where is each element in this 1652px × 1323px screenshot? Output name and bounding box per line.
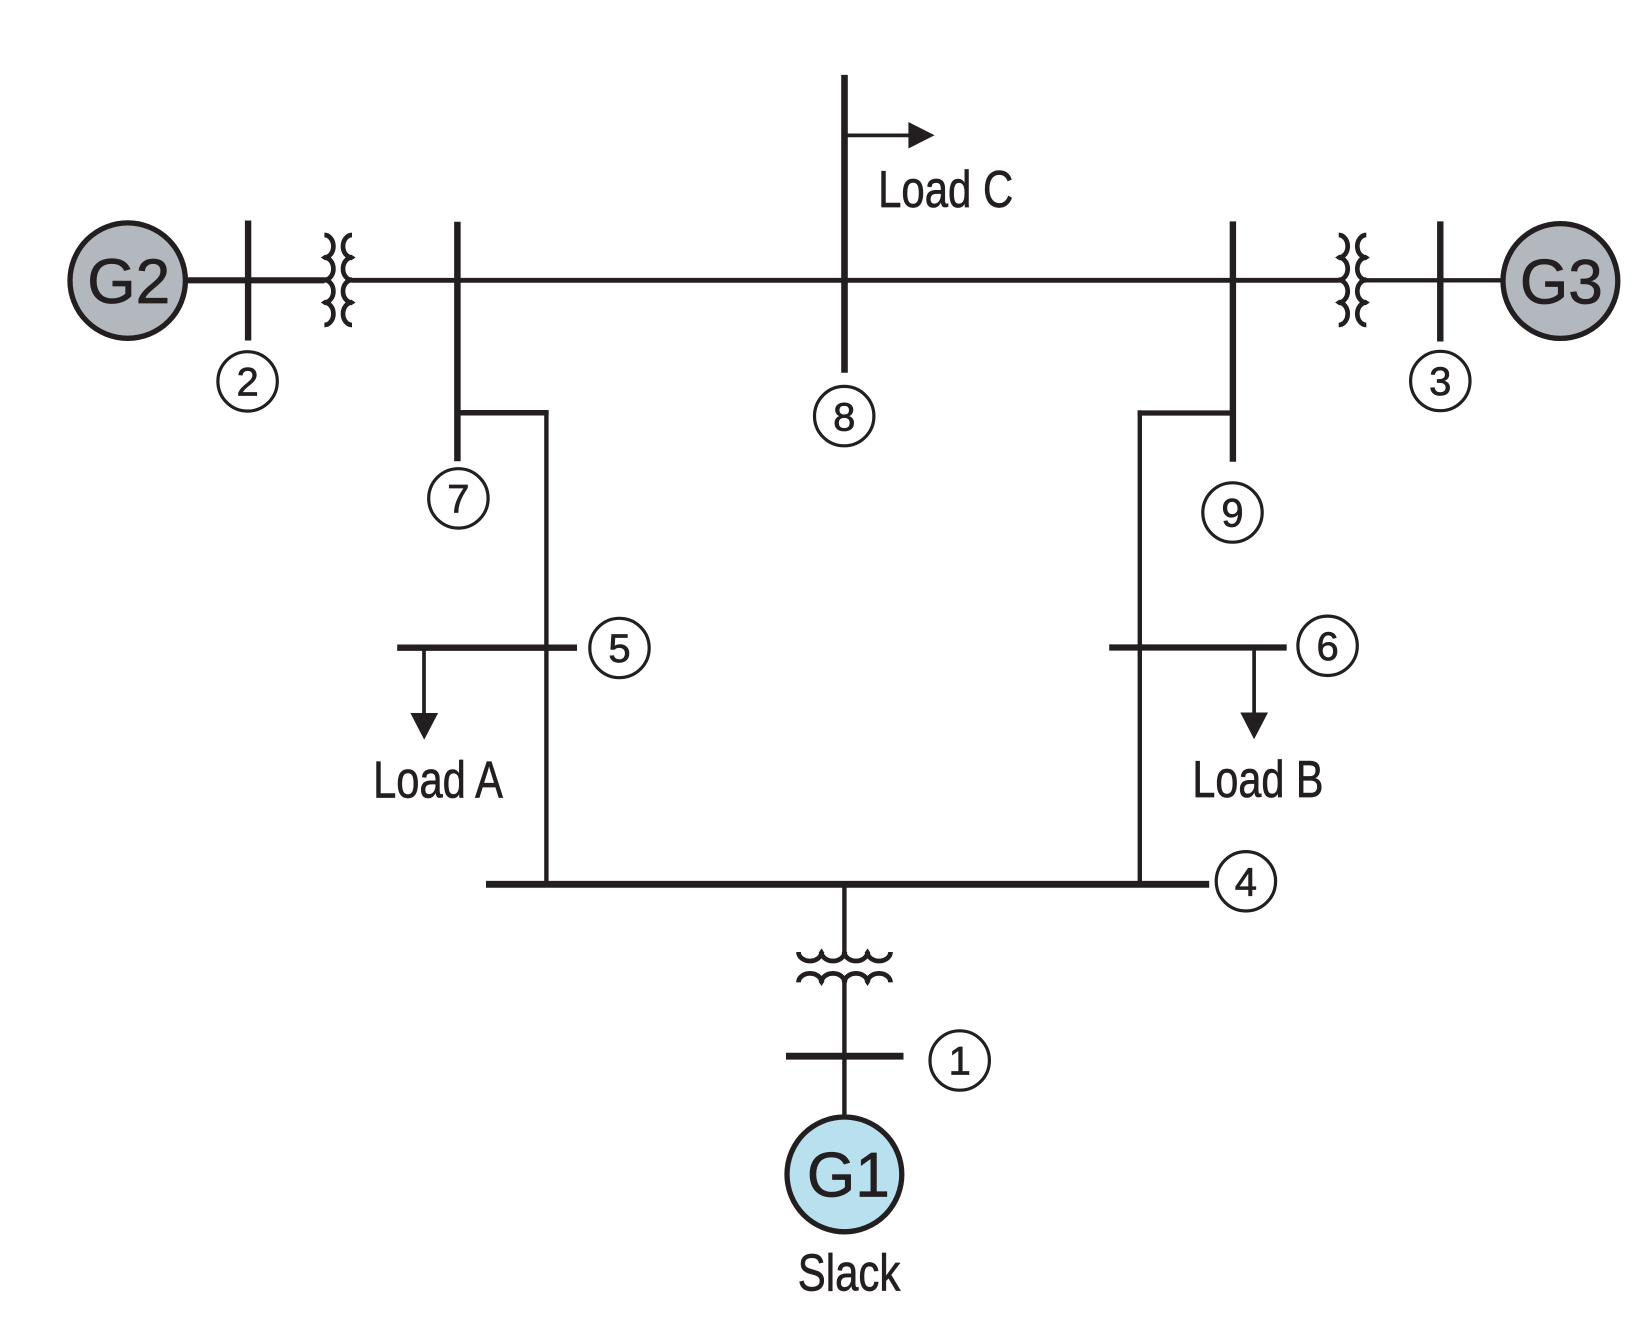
node circle 6 [1298, 616, 1357, 675]
transformer T2 coil right [343, 235, 352, 325]
svg-text:8: 8 [833, 395, 855, 439]
svg-text:2: 2 [236, 361, 258, 405]
wire line 5-7 vertical down to bus 4 [544, 410, 548, 884]
generator G1 [787, 1117, 902, 1232]
transformer T2 coil left [324, 235, 333, 325]
wire line 6-9 horizontal from bus 9 [1138, 410, 1233, 415]
svg-text:Load B: Load B [1192, 751, 1323, 809]
wire main transmission line bus7-bus8-bus9 [352, 278, 1339, 283]
svg-text:6: 6 [1316, 625, 1338, 669]
svg-text:3: 3 [1429, 360, 1451, 404]
transformer T2 cusp points [321, 255, 326, 306]
wire transformer T3 to G3 [1366, 278, 1560, 282]
svg-text:Load C: Load C [878, 161, 1013, 219]
node circle 5 [590, 618, 649, 677]
svg-text:4: 4 [1235, 861, 1257, 905]
bus 3 bar [1437, 221, 1443, 341]
bus 5 bar [397, 645, 577, 651]
svg-text:G3: G3 [1520, 247, 1603, 317]
svg-text:Slack: Slack [798, 1244, 901, 1302]
generator G3 [1503, 224, 1618, 339]
bus 2 bar [245, 221, 251, 341]
svg-text:G1: G1 [807, 1141, 890, 1211]
bus 7 bar [454, 222, 461, 461]
Load C arrow [845, 134, 909, 138]
wire line 5-7 horizontal from bus 7 [457, 410, 548, 416]
svg-text:5: 5 [608, 627, 630, 671]
transformer T1 coil top [799, 952, 891, 961]
svg-text:9: 9 [1221, 492, 1243, 536]
svg-text:1: 1 [949, 1040, 971, 1084]
transformer T3 coil right [1357, 235, 1366, 325]
bus 6 bar [1109, 644, 1287, 650]
transformer T1 cusp points [819, 948, 871, 953]
wire transformer T1 to bus 1 to G1 [842, 982, 846, 1115]
transformer T3 cusp points [1335, 255, 1340, 306]
node circle 9 [1203, 483, 1262, 542]
wire line 6-9 vertical down to bus 4 [1138, 410, 1142, 884]
svg-text:7: 7 [447, 478, 469, 522]
bus 4 bar [486, 881, 1209, 888]
node circle 2 [218, 352, 277, 411]
generator G2 [70, 223, 185, 338]
Load B arrow [1252, 648, 1256, 714]
bus 1 bar [786, 1053, 904, 1060]
node circle 7 [429, 469, 488, 528]
node circle 4 [1216, 852, 1275, 911]
wire bus 4 to transformer T1 [842, 884, 846, 952]
wire G2 to transformer T2 [128, 277, 325, 283]
transformer T3 coil left [1339, 235, 1348, 325]
svg-text:Load A: Load A [373, 752, 503, 810]
node circle 8 [815, 386, 874, 445]
Load A arrow [422, 648, 426, 714]
bus 8 bar [841, 75, 848, 373]
node circle 3 [1411, 351, 1470, 410]
bus 9 bar [1230, 221, 1236, 461]
transformer T1 coil bottom [799, 973, 891, 982]
svg-text:G2: G2 [87, 247, 170, 317]
node circle 1 [930, 1031, 989, 1090]
